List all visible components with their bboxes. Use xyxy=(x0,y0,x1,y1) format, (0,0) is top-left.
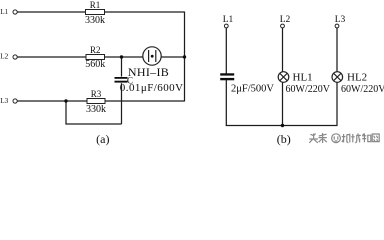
svg-text:HL2: HL2 xyxy=(347,71,367,83)
svg-text:R2: R2 xyxy=(90,45,101,55)
svg-text:L2: L2 xyxy=(0,53,8,61)
svg-text:L1: L1 xyxy=(223,15,234,25)
svg-text:(a): (a) xyxy=(96,132,109,146)
svg-text:L3: L3 xyxy=(0,97,8,105)
svg-text:(b): (b) xyxy=(277,132,291,146)
svg-text:R3: R3 xyxy=(91,89,102,99)
svg-text:L1: L1 xyxy=(0,8,8,16)
svg-text:HL1: HL1 xyxy=(293,71,313,83)
svg-text:L2: L2 xyxy=(280,15,291,25)
svg-text:L3: L3 xyxy=(335,15,346,25)
svg-text:R1: R1 xyxy=(90,0,101,10)
svg-text:330k: 330k xyxy=(86,104,106,115)
svg-text:560k: 560k xyxy=(85,59,105,70)
svg-text:2μF/500V: 2μF/500V xyxy=(231,84,274,95)
svg-text:60W/220V: 60W/220V xyxy=(341,84,384,95)
svg-text:330k: 330k xyxy=(85,15,105,26)
svg-text:0.01μF/600V: 0.01μF/600V xyxy=(120,82,184,94)
svg-text:60W/220V: 60W/220V xyxy=(286,84,331,95)
svg-text:NHI–IB: NHI–IB xyxy=(128,65,169,79)
